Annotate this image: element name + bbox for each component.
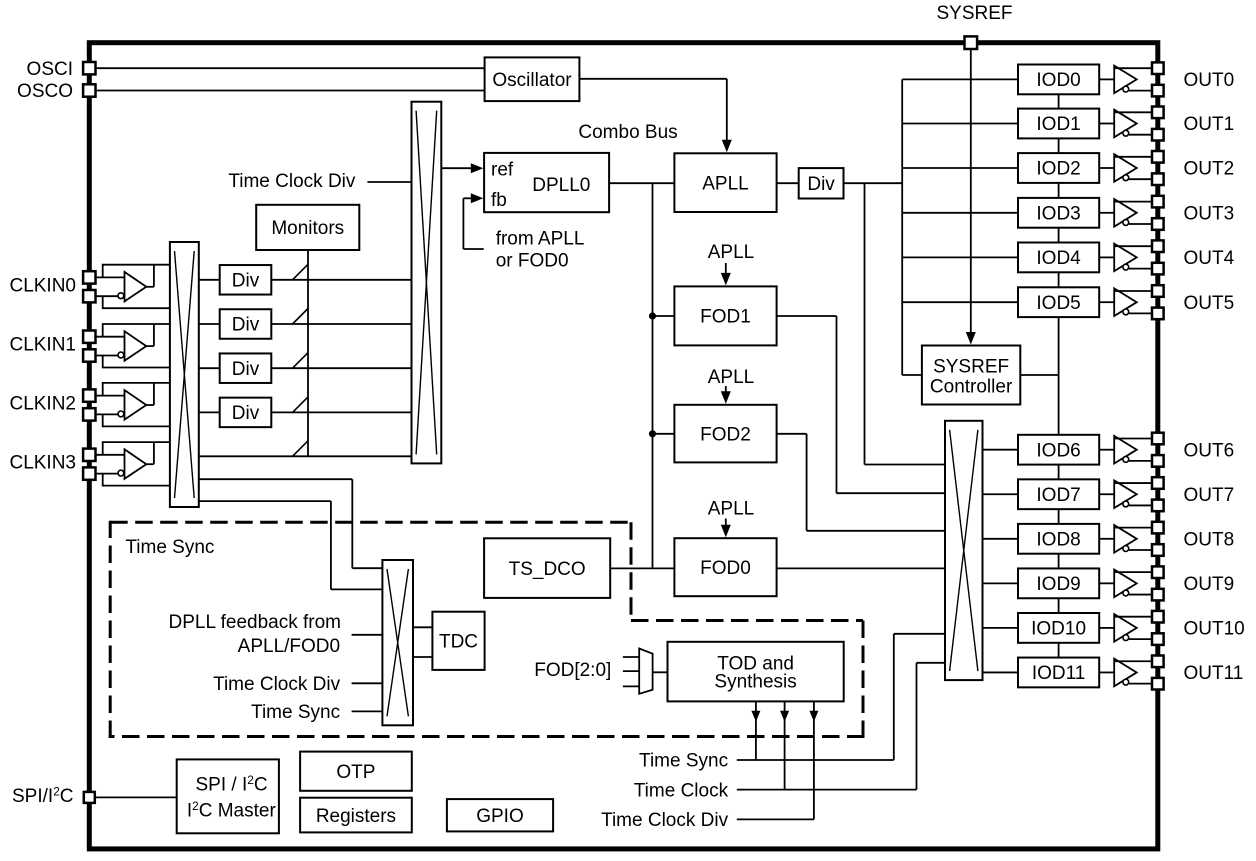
block IOD3 xyxy=(1018,198,1099,228)
pin CLKIN2 N xyxy=(83,408,95,420)
svg-text:SYSREF: SYSREF xyxy=(933,356,1009,377)
wire Time Sync label line xyxy=(737,759,894,761)
output buffer OUT6 xyxy=(1099,436,1152,464)
svg-text:APLL: APLL xyxy=(702,173,748,194)
svg-text:FOD[2:0]: FOD[2:0] xyxy=(534,660,611,681)
wire time sync mux to TDC lower xyxy=(412,656,433,658)
wire output mux to IOD10 xyxy=(982,627,1021,629)
block IOD2 xyxy=(1018,153,1099,183)
wire mux1 output to time sync mux input 2 xyxy=(198,501,383,589)
svg-text:APLL: APLL xyxy=(708,499,754,520)
pin OUT3 N xyxy=(1152,218,1164,230)
block Div (APLL output divider) xyxy=(799,168,844,198)
block Div 2 xyxy=(220,309,272,339)
wire Time Clock label line xyxy=(737,789,917,791)
svg-text:Div: Div xyxy=(807,174,835,195)
pin CLKIN1 N xyxy=(83,349,95,361)
arrowhead into ref xyxy=(471,163,484,173)
block Div 1 xyxy=(220,265,272,295)
wire OSCO to Oscillator xyxy=(95,90,486,92)
pin OUT11 P xyxy=(1152,656,1164,668)
pin OUT10 N xyxy=(1152,633,1164,645)
svg-text:TDC: TDC xyxy=(439,632,478,653)
svg-text:Combo Bus: Combo Bus xyxy=(578,122,677,143)
wire IOD chain vertical xyxy=(1058,94,1060,658)
pin OUT4 P xyxy=(1152,240,1164,252)
wire Combo Bus vertical xyxy=(652,183,654,568)
wire IOD0-5 distribution vertical xyxy=(901,79,903,375)
svg-text:Div: Div xyxy=(232,271,260,292)
wire FOD1 output to output mux xyxy=(776,316,946,493)
svg-text:SPI/I2C: SPI/I2C xyxy=(12,785,73,808)
wire FOD0 output to output mux xyxy=(776,567,946,569)
wire mux1 to Div 3 xyxy=(198,367,221,369)
pin OUT9 N xyxy=(1152,589,1164,601)
block FOD2 xyxy=(674,405,776,463)
wire Time Sync riser to output mux xyxy=(894,634,946,760)
wire branch to IOD3 xyxy=(902,212,1020,214)
block Registers xyxy=(300,798,412,833)
wire APLL arrow into FOD1 xyxy=(725,263,727,280)
block OTP xyxy=(300,752,412,791)
wire output mux to IOD11 xyxy=(982,671,1021,673)
svg-text:OUT3: OUT3 xyxy=(1184,204,1235,225)
pin OUT3 P xyxy=(1152,196,1164,208)
input buffer CLKIN0 xyxy=(95,265,170,309)
arrowhead into SYSREF Controller xyxy=(966,332,976,345)
arrowhead drop 1 xyxy=(751,711,760,722)
svg-text:or FOD0: or FOD0 xyxy=(496,251,569,272)
pin OUT8 P xyxy=(1152,522,1164,534)
block FOD0 xyxy=(674,538,776,596)
monitor tap slash 2 xyxy=(293,309,309,325)
wire Time Clock Div label line to time sync mux xyxy=(352,682,384,684)
wire Monitors sense vertical xyxy=(307,249,309,456)
svg-text:Controller: Controller xyxy=(930,377,1013,398)
output buffer OUT3 xyxy=(1099,199,1152,227)
block IOD4 xyxy=(1018,243,1099,273)
block GPIO xyxy=(447,799,553,831)
block SYSREF Controller xyxy=(922,346,1020,405)
svg-text:OUT7: OUT7 xyxy=(1184,485,1235,506)
svg-text:OUT8: OUT8 xyxy=(1184,530,1235,551)
svg-text:Registers: Registers xyxy=(316,806,396,827)
block IOD5 xyxy=(1018,287,1099,317)
output buffer OUT11 xyxy=(1099,659,1152,687)
pin OSCO xyxy=(83,84,95,96)
wire Div 2 to input mux xyxy=(270,323,412,325)
input buffer CLKIN2 xyxy=(95,383,170,427)
svg-text:Synthesis: Synthesis xyxy=(714,671,796,692)
output buffer OUT0 xyxy=(1099,66,1152,94)
block TS_DCO xyxy=(484,538,610,598)
wire TOD output drop 2 (Time Clock) xyxy=(784,700,786,789)
pin OUT9 P xyxy=(1152,566,1164,578)
wire FOD2 output to output mux xyxy=(776,434,946,531)
svg-text:OTP: OTP xyxy=(336,762,375,783)
wire input mux to DPLL0 ref xyxy=(440,167,477,169)
wire fb feedback stub from APLL or FOD0 xyxy=(463,198,483,249)
block IOD8 xyxy=(1018,524,1099,554)
svg-text:OSCI: OSCI xyxy=(27,59,73,80)
block TDC xyxy=(432,612,484,670)
svg-text:IOD8: IOD8 xyxy=(1036,530,1080,551)
wire mux1 to Div 4 xyxy=(198,411,221,413)
output buffer OUT5 xyxy=(1099,288,1152,316)
wire branch to IOD5 xyxy=(902,301,1020,303)
wire FOD[2:0] input lines xyxy=(623,657,640,686)
wire Div riser down to output mux xyxy=(865,183,947,464)
output buffer OUT1 xyxy=(1099,110,1152,138)
svg-text:IOD2: IOD2 xyxy=(1036,159,1080,180)
svg-text:Time Sync: Time Sync xyxy=(125,537,214,558)
wire output mux to IOD8 xyxy=(982,538,1021,540)
pin CLKIN0 N xyxy=(83,290,95,302)
pin OUT6 N xyxy=(1152,455,1164,467)
arrowhead drop 3 xyxy=(809,711,818,722)
input buffer CLKIN3 xyxy=(95,442,170,486)
pin OUT11 N xyxy=(1152,678,1164,690)
svg-text:IOD4: IOD4 xyxy=(1036,248,1081,269)
mux DPLL input crossbar xyxy=(412,102,442,464)
block IOD11 xyxy=(1018,658,1099,688)
svg-text:fb: fb xyxy=(491,190,507,211)
block SPI / I2C master xyxy=(177,759,279,833)
wire Div 3 to input mux xyxy=(270,367,412,369)
svg-text:IOD9: IOD9 xyxy=(1036,574,1080,595)
wire OSCI to Oscillator xyxy=(95,67,486,69)
monitor tap slash 5 xyxy=(293,441,309,457)
svg-text:OUT9: OUT9 xyxy=(1184,574,1235,595)
wire mux1 output to time sync mux input 1 xyxy=(198,479,383,568)
svg-text:Time Sync: Time Sync xyxy=(251,702,340,723)
pin CLKIN2 P xyxy=(83,389,95,401)
dashed Time Sync region outline xyxy=(109,521,865,738)
wire time sync mux to TDC upper xyxy=(412,626,433,628)
svg-text:OUT5: OUT5 xyxy=(1184,293,1235,314)
pin OUT1 P xyxy=(1152,107,1164,119)
wire Time Clock Div label line xyxy=(737,818,814,820)
pin CLKIN3 P xyxy=(83,449,95,461)
block IOD1 xyxy=(1018,109,1099,139)
wire Div output to IOD column and SYSREF Controller feed xyxy=(843,182,903,184)
svg-text:IOD1: IOD1 xyxy=(1036,114,1080,135)
wire branch to IOD0 xyxy=(902,78,1020,80)
wire DPLL0 output to APLL (Combo Bus) xyxy=(608,182,675,184)
mux time sync crossbar xyxy=(382,560,413,725)
svg-text:TS_DCO: TS_DCO xyxy=(509,559,586,580)
svg-text:SYSREF: SYSREF xyxy=(936,3,1012,24)
block IOD0 xyxy=(1018,65,1099,95)
block IOD10 xyxy=(1018,613,1099,643)
svg-text:IOD5: IOD5 xyxy=(1036,293,1080,314)
svg-text:Time Clock Div: Time Clock Div xyxy=(601,810,729,831)
pin OUT7 N xyxy=(1152,500,1164,512)
wire Time Clock Div label to input mux xyxy=(367,181,412,183)
block Oscillator xyxy=(485,57,580,101)
output buffer OUT10 xyxy=(1099,614,1152,642)
output buffer OUT2 xyxy=(1099,154,1152,182)
svg-text:IOD10: IOD10 xyxy=(1031,619,1086,640)
svg-text:OUT11: OUT11 xyxy=(1184,663,1244,684)
arrowhead Oscillator into APLL xyxy=(722,140,732,153)
svg-text:CLKIN1: CLKIN1 xyxy=(9,335,76,356)
wire branch to IOD4 xyxy=(902,256,1020,258)
wire Time Sync label line to time sync mux xyxy=(352,710,384,712)
wire TOD output drop 3 (Time Clock Div) xyxy=(813,700,815,819)
svg-text:IOD0: IOD0 xyxy=(1036,70,1080,91)
monitor tap slash 3 xyxy=(293,353,309,369)
svg-text:Time Clock: Time Clock xyxy=(634,780,729,801)
svg-text:OUT1: OUT1 xyxy=(1184,114,1235,135)
svg-text:Time Clock Div: Time Clock Div xyxy=(213,674,341,695)
pin CLKIN1 P xyxy=(83,331,95,343)
wire Oscillator output to APLL xyxy=(579,79,726,147)
pin SYSREF xyxy=(965,36,978,49)
block Div 4 xyxy=(220,398,272,428)
svg-text:APLL: APLL xyxy=(708,367,754,388)
block Div 3 xyxy=(220,353,272,383)
wire SYSREF pin drop to SYSREF Controller xyxy=(970,48,972,338)
svg-text:Div: Div xyxy=(232,315,260,336)
svg-text:IOD11: IOD11 xyxy=(1032,663,1086,684)
arrowhead drop 2 xyxy=(780,711,789,722)
svg-text:CLKIN3: CLKIN3 xyxy=(9,453,76,474)
selector mux FOD[2:0] xyxy=(639,649,652,694)
mux output crossbar (IOD6-11) xyxy=(945,421,983,680)
wire distribution vertical into SYSREF Controller xyxy=(902,374,923,376)
pin OSCI xyxy=(83,62,95,74)
svg-text:IOD3: IOD3 xyxy=(1036,204,1080,225)
pin OUT6 P xyxy=(1152,433,1164,445)
wire DPLL feedback label line xyxy=(352,634,384,636)
svg-text:Time Clock Div: Time Clock Div xyxy=(228,171,356,192)
wire Combo Bus tap to FOD1 xyxy=(653,315,676,317)
mux input crossbar (CLKIN mux) xyxy=(170,242,199,507)
wire APLL output to Div xyxy=(776,182,800,184)
pin OUT0 N xyxy=(1152,85,1164,97)
output buffer OUT8 xyxy=(1099,525,1152,553)
svg-text:FOD2: FOD2 xyxy=(700,424,751,445)
monitor tap slash 4 xyxy=(293,397,309,413)
pin OUT1 N xyxy=(1152,129,1164,141)
wire SYSREF Controller output to IOD chain xyxy=(1019,374,1058,376)
wire mux1 to Div 2 xyxy=(198,323,221,325)
input buffer CLKIN1 xyxy=(95,324,170,368)
wire mux1 to Div 1 xyxy=(198,279,221,281)
wire APLL arrow into FOD0 xyxy=(725,519,727,532)
svg-text:Time Sync: Time Sync xyxy=(639,751,728,772)
wire Div 1 to input mux xyxy=(270,279,412,281)
svg-text:I2C Master: I2C Master xyxy=(187,799,277,822)
wire output mux to IOD9 xyxy=(982,582,1021,584)
pin OUT5 N xyxy=(1152,308,1164,320)
monitor tap slash 1 xyxy=(293,264,309,280)
svg-text:IOD7: IOD7 xyxy=(1036,485,1080,506)
svg-text:OUT6: OUT6 xyxy=(1184,440,1235,461)
pin OUT7 P xyxy=(1152,477,1164,489)
wire Div 4 to input mux xyxy=(270,411,412,413)
output buffer OUT9 xyxy=(1099,570,1152,598)
wire branch to IOD2 xyxy=(902,167,1020,169)
svg-text:SPI / I2C: SPI / I2C xyxy=(196,773,268,796)
wire APLL arrow into FOD2 xyxy=(725,386,727,398)
svg-text:DPLL0: DPLL0 xyxy=(532,175,590,196)
svg-text:CLKIN2: CLKIN2 xyxy=(9,394,76,415)
svg-text:Div: Div xyxy=(232,359,260,380)
pin OUT4 N xyxy=(1152,263,1164,275)
pin OUT2 P xyxy=(1152,151,1164,163)
wire TS_DCO output to FOD0 xyxy=(609,567,675,569)
junction dot FOD2 tap xyxy=(649,430,656,437)
pin OUT8 N xyxy=(1152,544,1164,556)
chip boundary frame xyxy=(89,43,1158,849)
pin OUT10 P xyxy=(1152,611,1164,623)
svg-text:Div: Div xyxy=(232,403,260,424)
wire TOD output drop 1 (Time Sync) xyxy=(755,700,757,760)
svg-text:APLL: APLL xyxy=(708,242,754,263)
pin OUT5 P xyxy=(1152,285,1164,297)
svg-text:CLKIN0: CLKIN0 xyxy=(9,275,76,296)
block TOD and Synthesis xyxy=(668,642,844,702)
wire selector to TOD block xyxy=(653,671,669,673)
block IOD7 xyxy=(1018,479,1099,509)
svg-text:IOD6: IOD6 xyxy=(1036,440,1080,461)
svg-text:Oscillator: Oscillator xyxy=(492,70,572,91)
block IOD9 xyxy=(1018,568,1099,598)
pin CLKIN0 P xyxy=(83,271,95,283)
wire Combo Bus tap to FOD2 xyxy=(653,433,676,435)
output buffer OUT7 xyxy=(1099,480,1152,508)
svg-text:OUT0: OUT0 xyxy=(1184,70,1235,91)
wire branch to IOD1 xyxy=(902,123,1020,125)
output buffer OUT4 xyxy=(1099,244,1152,272)
pin SPI/I2C xyxy=(84,792,95,803)
pin OUT2 N xyxy=(1152,173,1164,185)
pin OUT0 P xyxy=(1152,62,1164,74)
arrowhead into fb xyxy=(471,193,484,203)
svg-text:Monitors: Monitors xyxy=(271,218,344,239)
svg-text:OSCO: OSCO xyxy=(17,81,73,102)
junction dot FOD1 tap xyxy=(649,312,656,319)
block IOD6 xyxy=(1018,435,1099,465)
block DPLL0 xyxy=(484,153,609,212)
block FOD1 xyxy=(674,286,776,345)
wire SPI pin to SPI block xyxy=(95,796,177,798)
svg-text:OUT2: OUT2 xyxy=(1184,159,1235,180)
block Monitors xyxy=(256,205,359,250)
svg-text:GPIO: GPIO xyxy=(476,806,524,827)
pin CLKIN3 N xyxy=(83,467,95,479)
svg-text:DPLL feedback from: DPLL feedback from xyxy=(169,612,342,633)
svg-text:APLL/FOD0: APLL/FOD0 xyxy=(238,636,340,657)
svg-text:ref: ref xyxy=(491,159,514,180)
wire output mux to IOD6 xyxy=(982,449,1021,451)
svg-text:FOD0: FOD0 xyxy=(700,558,751,579)
wire output mux to IOD7 xyxy=(982,493,1021,495)
svg-text:OUT4: OUT4 xyxy=(1184,248,1235,269)
svg-text:FOD1: FOD1 xyxy=(700,307,751,328)
wire mux1 direct output to input mux xyxy=(198,455,413,457)
svg-text:OUT10: OUT10 xyxy=(1184,619,1245,640)
wire Time Clock riser to output mux xyxy=(917,663,947,790)
block APLL xyxy=(674,153,776,212)
svg-text:from APLL: from APLL xyxy=(496,229,585,250)
